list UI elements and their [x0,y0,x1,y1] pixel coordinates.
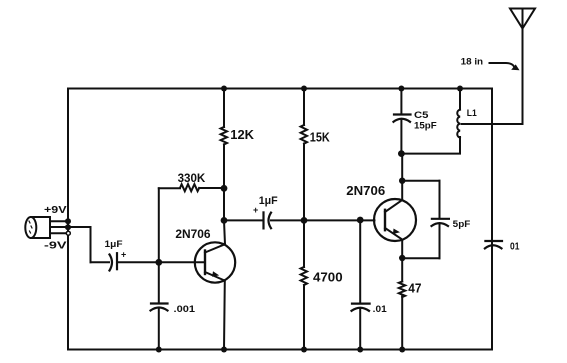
node J1 leads [65,218,71,230]
svg-text:01: 01 [510,242,520,253]
node R5 bottom [399,347,405,353]
inductor L1 [457,89,460,138]
wire J1 lead mid [50,227,91,262]
svg-text:+9V: +9V [44,205,67,216]
svg-text:+: + [121,250,126,260]
capacitor C4 .01 [352,220,370,350]
connector J1 (battery plug) [25,217,50,238]
capacitor C2 .001 [151,304,168,311]
svg-text:15pF: 15pF [414,121,437,132]
transistor Q2 2N706 [374,199,416,241]
resistor R4 4700 [301,220,307,349]
wire tank bottom [401,137,460,154]
resistor R1 330K [159,184,224,191]
capacitor C5 15pF [394,89,411,154]
node tank bottom [398,150,405,157]
wire antenna tap [462,123,523,125]
wire R2 to Q1 collector [223,188,225,220]
node Q2 collector / 5pF tap [399,178,405,184]
wire bottom rail [68,349,492,351]
wire Q2 collector up [401,154,403,200]
svg-text:.01: .01 [373,304,388,315]
wire C1 to Q1 base node [117,261,159,263]
wire left rail [67,89,69,350]
svg-text:2N706: 2N706 [175,227,211,241]
wire input to C1 [91,261,110,263]
resistor R3 15K [301,89,307,221]
svg-text:5pF: 5pF [453,219,471,230]
node Q2 emitter [399,255,405,261]
node C4 bottom [357,347,363,353]
node C4 tap [357,217,364,224]
antenna [510,9,535,125]
node C2 bottom [156,347,162,353]
capacitor C1 1uF [110,253,118,270]
svg-text:2N706: 2N706 [346,183,385,198]
svg-text:15K: 15K [310,130,331,145]
transistor Q1 2N706 [159,242,235,282]
resistor R5 47 [399,258,405,350]
svg-text:-9V: -9V [44,241,67,252]
svg-text:.001: .001 [174,304,196,315]
capacitor C3 1uF coupling [224,212,304,228]
svg-text:1μF: 1μF [259,195,278,207]
wire right rail [491,89,493,350]
node R4 bottom [301,347,307,353]
wire Q2 base [304,219,375,221]
svg-text:4700: 4700 [313,270,343,284]
wire top rail [68,88,492,90]
node Q1 base [155,259,162,266]
svg-text:47: 47 [408,282,421,296]
node Q1 collector [221,217,228,224]
node Q1 emitter bottom [221,347,227,353]
svg-text:L1: L1 [467,108,478,119]
capacitor C7 .01 output [485,241,502,248]
wire J1 lead -9V [50,232,68,234]
node R1/R2 junction [221,185,228,192]
svg-text:+: + [253,205,258,215]
node Q2 base / R3-R4 junction [301,217,308,224]
capacitor C6 5pF [402,181,449,259]
arrow 18in [490,63,520,70]
wire Q1 emitter to bottom rail [223,281,226,350]
wire C2 to bottom rail [158,309,160,350]
wire Q2 emitter down [401,240,403,258]
wire J1 lead +9V [50,220,68,222]
svg-text:18 in: 18 in [461,57,484,68]
svg-text:1μF: 1μF [105,239,123,250]
svg-text:330K: 330K [178,171,206,185]
svg-text:12K: 12K [230,127,254,142]
wire base node vertical [158,188,160,303]
resistor R2 12K [221,89,227,189]
node top rail junctions [221,86,463,92]
